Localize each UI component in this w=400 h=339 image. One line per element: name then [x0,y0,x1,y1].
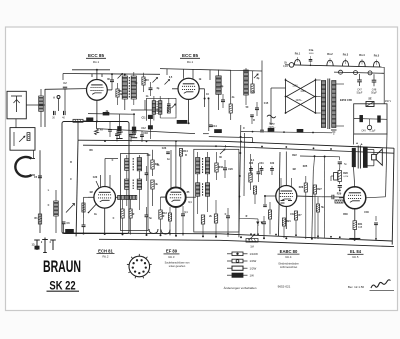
svg-text:C18: C18 [143,132,148,135]
pin stubs V2 [172,89,205,123]
wire V5 anode up [285,152,287,186]
capacitor C23 above V4 [162,147,170,154]
svg-text:R: R [163,215,165,218]
EABC note [278,263,299,269]
tube socket bottom view [127,254,152,278]
resistor R20 [253,186,256,204]
matching box (balun) [10,128,35,151]
svg-text:C26: C26 [228,168,233,171]
svg-text:1M: 1M [250,245,254,249]
heater hump Ro5 [373,60,379,67]
pin stubs V1 [87,70,113,121]
svg-text:C: C [225,213,227,216]
tone capacitor C42 [338,186,342,192]
capacitor C28 [257,163,261,182]
main enclosure right edge [392,148,394,245]
IFT2 coil pair upper [196,158,210,174]
svg-text:C31: C31 [259,163,264,165]
mains tilde symbol [267,115,276,129]
selenium rectifier [366,98,374,107]
capacitor C26 [223,160,227,178]
input coil L1 [39,96,44,111]
rectifier right drop [386,134,387,197]
tuner output terminals [32,238,56,253]
resistor R11 bottom [121,200,124,234]
screen blob V4 [187,191,193,204]
resistor R10 [151,180,159,206]
svg-text:C15: C15 [264,102,269,105]
wire x324 drop [323,157,325,239]
pin stubs V4 [161,141,197,236]
junction dots V1 area [96,69,126,123]
label tube V6 EL 84 Ro.5 [348,249,364,259]
transformer connect wires [336,84,344,126]
svg-text:R: R [246,215,248,218]
svg-text:R14: R14 [183,150,188,153]
junction blobs ratio [141,115,152,139]
discriminator coil L5 [244,68,249,105]
trimmer ratio [171,104,175,108]
dots IFT2 [202,235,242,238]
label tube V1 ECC 85 Ro.1 [86,53,106,64]
resistor R15 cathode [168,207,171,236]
tube V3 ECH81 mixer [94,187,116,209]
svg-text:0,1M: 0,1M [343,176,348,178]
svg-text:50µF: 50µF [371,92,377,95]
resistor R26 [299,176,308,239]
svg-text:C32: C32 [270,163,275,165]
dots V6 [354,186,356,241]
resistor AF b [294,211,302,235]
svg-text:R7: R7 [100,128,104,132]
tuner box corner label [66,229,74,232]
capacitor C31 [259,163,264,175]
mains fuse [283,61,294,68]
L3 core dashes [128,77,130,98]
junction dots V2 area [177,97,222,132]
resistor R19 [249,154,252,190]
svg-text:C46: C46 [364,211,369,214]
grid switch diagonal V3 [88,204,97,214]
capacitor C15 [255,102,259,116]
svg-text:R21: R21 [286,220,291,223]
IFT1 primary coil lower [125,179,129,189]
rectifier label E250C85 [340,98,352,102]
svg-text:C11: C11 [141,118,146,120]
resistor R1 left column [34,214,41,224]
svg-text:1000: 1000 [309,53,315,55]
IFT2 coil pair lower [196,183,210,196]
capacitor C17 drop [129,131,137,142]
detector feed line [239,125,241,237]
svg-text:Rö.2: Rö.2 [103,255,109,259]
socket note [165,262,190,268]
legend resistor 1/4 W [227,259,257,263]
wire grid V4 [161,196,167,198]
svg-text:R26: R26 [299,186,304,189]
svg-text:+: + [360,143,362,147]
svg-text:R25: R25 [303,165,308,168]
svg-text:C20: C20 [93,176,98,179]
label tube V3 ECH 81 Ro.2 [97,248,115,258]
capacitor C16 drop [115,130,123,142]
capacitor C6 [62,222,71,233]
IFT1 core dashes upper [132,158,134,171]
capacitor C3 [52,111,55,120]
voltage selector crossbars [286,79,316,114]
electrolytic arrows [256,222,263,235]
svg-text:R: R [253,119,255,122]
capacitor C27 bottom [226,208,230,237]
tone capacitor C41 [338,162,348,168]
capacitor C4 [62,111,65,120]
svg-text:1/2W: 1/2W [250,266,257,270]
svg-text:A: A [53,96,55,100]
svg-text:Ber. 12.1.56: Ber. 12.1.56 [348,285,365,289]
svg-text:9652-021: 9652-021 [278,285,291,289]
output transformer secondary [363,147,367,167]
capacitor C to chassis b [131,113,137,137]
speaker wires [367,150,374,166]
wire V3 anode up [105,159,118,187]
IFT2 wires [198,152,208,214]
wire top V2-right [231,69,262,72]
capacitor C19 ratio [167,98,171,113]
svg-text:R28: R28 [343,172,348,175]
selector terminals [285,79,317,114]
coupling capacitor C34 [297,195,344,200]
svg-text:R: R [133,213,135,216]
label tube V4 EF 89 Ro.3 [164,249,180,259]
svg-text:E250 C85: E250 C85 [340,98,352,102]
tube V2 ECC85 triode b [178,78,199,99]
antenna terminal box [7,91,26,119]
component value labels [48,76,370,220]
mains lead [271,80,321,113]
resistor R4 agc [73,118,93,123]
power transformer primary winding [321,81,325,128]
dots AF [263,237,313,240]
AGC wire [88,110,135,115]
svg-text:R29: R29 [337,193,342,196]
resistor R5 [229,70,232,120]
note Aenderungen vorbehalten [224,286,257,290]
electrolytic C48 [371,74,377,94]
tuned coil L3 [122,74,127,110]
svg-text:R31: R31 [358,223,363,226]
trimmer det [254,74,258,78]
ratio coil pair [152,96,162,121]
capacitor C7 at V1 anode [110,74,114,90]
detector feed line b [243,133,246,196]
heater hump Ro4 [359,59,365,67]
pin stubs V6 [339,197,386,221]
power transformer secondary winding [331,81,337,135]
coil L2 left [54,190,59,233]
svg-text:C49: C49 [361,131,366,133]
chassis ground bus [62,233,392,241]
tube V1 ECC85 triode a [87,80,108,101]
resistor R18 bottom [214,200,217,237]
wire left column down [16,119,40,233]
svg-text:C14: C14 [212,125,217,128]
svg-text:C17: C17 [132,132,137,135]
svg-text:Rö.3: Rö.3 [169,255,175,259]
B+ distribution wire [241,128,332,133]
wire OT to V6 anode [354,167,355,187]
capacitor C24 cathode [181,206,185,236]
legend resistor 1/2 W [227,266,257,270]
resistor R6 discr [251,71,254,94]
svg-text:C23: C23 [162,147,167,150]
svg-text:BRAUN: BRAUN [43,256,81,275]
capacitor C5 left column [34,176,42,179]
transformer polarity marks [356,142,363,147]
pilot lamp a [339,70,343,74]
svg-text:1W: 1W [250,273,255,277]
svg-text:110V: 110V [292,86,298,88]
resistor R16 [215,152,224,180]
svg-text:EL 84: EL 84 [350,249,362,254]
vertical wire x313 [312,170,314,239]
IF transformer I shield box [121,154,149,231]
grid resistor R25 [316,197,319,239]
resistor AF a [268,202,271,234]
anode supply rail [83,145,394,153]
svg-text:1/10W: 1/10W [250,252,259,256]
svg-text:R: R [70,161,72,164]
output transformer primary [352,148,355,166]
resistor R12 bottom [129,200,132,235]
dots on feed [238,136,241,198]
tube V6 EL84 output [344,187,366,209]
svg-text:0,2A: 0,2A [283,65,288,68]
terminal A1 [53,96,60,112]
grid resistor R29 [335,193,343,204]
electrolytic C47 [357,74,363,94]
model designation SK 22 [47,279,80,292]
svg-text:R22: R22 [292,154,297,157]
svg-text:260 V: 260 V [385,100,392,103]
svg-text:1M: 1M [292,168,295,171]
capacitor C22 bottom [145,207,149,235]
pin stubs V3 [88,175,118,234]
capacitor C32 [270,163,275,175]
oscillator coil L4 [216,70,221,111]
svg-text:C: C [243,127,245,130]
svg-text:C45: C45 [358,227,363,229]
rectifier to output trafo wire [352,134,354,145]
drawing number [278,285,291,289]
date note [348,285,365,289]
svg-text:Rö.1: Rö.1 [295,53,301,56]
vertical wire x262 [261,61,263,131]
trimmer C12 [165,80,170,85]
heater drop to rectifier [383,67,385,103]
mains lead lower [270,112,272,125]
svg-text:Rö.5: Rö.5 [374,54,380,57]
svg-text:0,1µF: 0,1µF [370,131,377,133]
resistor R14 above V4 [179,149,188,157]
resistor R27 [313,185,322,239]
svg-text:50µF: 50µF [357,91,363,94]
grid label blob V3 [89,176,98,194]
svg-text:Rö.3: Rö.3 [343,54,349,57]
pilot lamp b [354,71,358,75]
svg-text:R16: R16 [219,166,224,169]
trimmer C25 [220,145,225,154]
capacitor det2 [250,115,254,124]
svg-text:EABC 80: EABC 80 [280,249,298,254]
svg-text:C: C [113,217,115,220]
svg-text:C43: C43 [290,213,295,216]
rectifier filter box [354,104,387,134]
svg-text:ECH 81: ECH 81 [98,248,113,253]
capacitor C14 osc [209,125,217,128]
wire heater drop V3 [82,197,89,233]
svg-text:Änderungen vorbehalten: Änderungen vorbehalten [224,286,257,290]
wire grid EL84 [297,195,322,198]
IFT1 secondary coil lower [137,179,141,189]
IFT1 secondary coil upper [137,158,141,171]
resistor R13 [159,197,168,235]
heater wire above V1 [63,70,160,80]
signature [370,280,395,291]
volume potentiometer [246,234,258,248]
ground hook b [161,230,170,235]
heater cap C1a [309,56,313,66]
resistor R3 [142,73,149,92]
svg-text:Rö.4: Rö.4 [359,54,365,57]
svg-text:C30: C30 [249,163,254,165]
svg-text:Rö.5: Rö.5 [353,255,359,259]
svg-text:nicht bezeichnet: nicht bezeichnet [280,266,298,269]
bus wire upper-left [78,121,195,140]
band switch arrow left [66,204,75,213]
tone potentiometer R28 [331,168,348,184]
coil L3b [131,72,136,105]
resistor R17 bottom [201,215,204,236]
heater hump Ro3 [342,59,348,67]
svg-text:125V: 125V [300,91,306,93]
capacitor C9 [149,82,153,96]
speaker horn [376,149,382,165]
ground bus junction dots [169,233,377,240]
rectifier box internals [354,115,387,132]
B+ label [385,100,392,103]
IF transformer II shield box [194,149,239,232]
svg-text:Rö.1: Rö.1 [187,60,194,64]
svg-text:EF 89: EF 89 [166,249,178,254]
stub wires V2 top [167,69,210,80]
legend resistor 1/10 W [227,252,258,256]
pilot lamp c [368,71,372,75]
tube V4 EF89 IF amplifier [166,187,186,207]
rail junction dots [104,140,355,152]
svg-text:ECC 85: ECC 85 [182,53,199,58]
label tube V5 EABC 80 Ro.4 [278,249,300,259]
BRAUN wordmark logo [43,256,81,275]
label tube V2 ECC 85 Ro.1 [180,53,200,64]
tube V5 EABC80 demodulator [276,186,297,207]
resistor R21 below V5 [282,218,291,238]
svg-text:R30: R30 [343,213,348,216]
svg-text:Rö.2: Rö.2 [327,53,333,56]
main enclosure left edge [76,140,78,236]
svg-text:1/4W: 1/4W [250,259,257,263]
wire antenna to tuner [45,88,87,91]
resistor R2 [116,83,123,105]
svg-text:Rö.4: Rö.4 [286,255,292,259]
svg-text:R27: R27 [317,188,322,191]
speaker coil rect [372,154,377,160]
heater hump Ro1 [294,57,300,65]
resistor R7 on bus [95,128,104,135]
heater chain wire [294,65,384,67]
output transformer core [358,146,360,169]
frame antenna loop [15,157,35,177]
svg-text:C: C [112,159,114,162]
antenna lead wire [26,89,45,127]
wire coil to box [40,89,42,127]
svg-text:220V~: 220V~ [296,100,303,102]
power transformer core [328,79,330,130]
wire det to pot [239,219,258,227]
IFT1 wires [127,155,140,210]
svg-text:C: C [48,204,50,207]
trimmer C8 [118,74,123,79]
svg-text:+: + [356,142,358,146]
svg-text:C: C [70,178,72,181]
wire bus to AF [300,155,340,170]
AF partition line [279,152,281,236]
ground hook a [149,229,158,234]
grid stopper blob [263,195,267,207]
svg-text:unten gesehen: unten gesehen [169,265,186,268]
capacitor C13 [221,94,225,108]
resistor R9 [151,150,160,176]
svg-text:SE: SE [368,98,372,101]
FM tuner shield box [62,122,129,234]
capacitor C21 [145,166,149,181]
svg-text:C1a: C1a [309,49,314,52]
IFT1 core dashes lower [132,180,134,190]
pin stubs V5 [265,178,313,229]
heater hump Ro2 [327,58,333,66]
capacitor C18 drop [140,131,148,142]
main enclosure bottom edge [99,239,394,246]
dot row mid [160,234,178,236]
svg-text:C16: C16 [118,131,123,134]
heater wire drop right [374,216,378,239]
svg-text:R: R [185,154,187,157]
legend resistor 1 W [227,273,254,277]
wire osc section [203,98,253,143]
cathode ground [349,229,360,238]
IFT1 primary coil upper [125,159,129,171]
trimmer C10 [153,78,158,83]
wire V1-V2 top [160,69,231,71]
svg-text:220V~: 220V~ [269,126,277,129]
capacitor C2 on antenna wire [63,82,67,111]
capacitor mid a [108,122,112,138]
cathode resistor R31 [353,221,363,230]
heater return wire [334,72,384,73]
heater chain labels [295,49,380,57]
oscillator coil L6 [118,195,137,199]
svg-text:C12: C12 [141,128,146,130]
capacitor C30 [249,163,254,175]
